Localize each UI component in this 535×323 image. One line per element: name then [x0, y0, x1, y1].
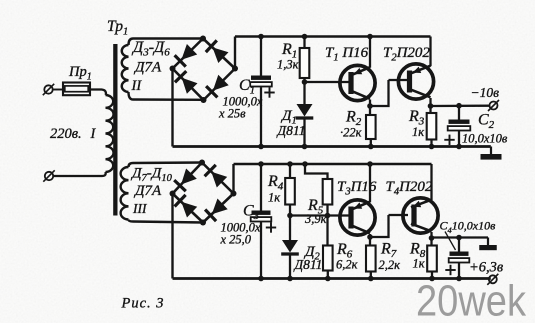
transistor T3 [340, 200, 375, 235]
node C4 bottom [456, 276, 462, 282]
primary winding I [106, 95, 114, 172]
svg-text:Д7А: Д7А [133, 60, 162, 76]
svg-text:Т2П202: Т2П202 [383, 45, 430, 64]
node R7 bottom [368, 276, 374, 282]
wire D1 bottom lead [303, 117, 305, 147]
resistor R5 [323, 179, 333, 205]
bridge rectifier D7-D10 [173, 163, 203, 194]
node C1 bottom [258, 144, 264, 150]
svg-text:Рис. 3: Рис. 3 [121, 296, 165, 312]
node C3 top [258, 161, 264, 167]
terminal primary top [44, 85, 52, 93]
node R4-D2-base junction [287, 213, 293, 219]
capacitor C1 [251, 76, 271, 80]
svg-text:·22к: ·22к [340, 126, 362, 140]
diode upper-right of bridge 1 [213, 47, 229, 63]
svg-text:Т1 П16: Т1 П16 [325, 45, 369, 64]
resistor R3 [427, 113, 437, 140]
svg-text:3,9к: 3,9к [304, 212, 327, 226]
ground top section [490, 147, 492, 155]
wire R8 bottom lead [431, 272, 433, 279]
svg-text:1к: 1к [412, 125, 424, 139]
wire bridge2 right corner up to rail C [232, 164, 234, 194]
wire terminal to fuse [53, 89, 63, 91]
resistor R6 [323, 246, 333, 271]
wire winding III bottom to bridge [129, 220, 204, 223]
transistor T3 leads [347, 214, 350, 216]
node R1-D1-base junction [302, 79, 308, 85]
resistor R7 [366, 246, 376, 272]
wire D2 bottom lead [289, 253, 291, 279]
wire bridge1 right corner up to rail B [234, 37, 236, 69]
secondary winding II [122, 45, 129, 92]
node C2 bottom [456, 144, 462, 150]
wire R8 top lead [430, 238, 432, 246]
wire C1 top lead [260, 37, 262, 76]
wire R6 top lead [326, 216, 328, 246]
lower top rail C [234, 163, 432, 166]
wire D1 top lead [303, 82, 305, 104]
transistor T2 [398, 64, 433, 99]
wire R2 top lead [369, 106, 371, 115]
resistor R1 [300, 48, 310, 78]
wire bridge1 left corner down to bottom rail [171, 69, 173, 147]
transformer core [113, 44, 117, 216]
transistor T1 [340, 65, 375, 100]
node R4 top [287, 161, 293, 167]
leader line C4 [445, 232, 456, 251]
transistor T4 leads [389, 214, 409, 216]
wire R7 top lead [369, 237, 371, 246]
transistor T1 leads [347, 81, 350, 83]
wire R5 jog [305, 164, 328, 179]
capacitor C2 [449, 120, 470, 124]
secondary winding III [121, 167, 129, 220]
node R5 rail tap [302, 161, 308, 167]
wire D2 top lead [289, 216, 291, 241]
wire R5 bottom lead [326, 205, 328, 216]
bridge rectifier D3-D6 [173, 39, 204, 69]
terminal primary bottom [45, 172, 53, 180]
svg-text:Т4П202: Т4П202 [386, 179, 433, 198]
svg-text:х 25,0: х 25,0 [220, 233, 252, 247]
svg-text:+6,3в: +6,3в [469, 260, 504, 276]
svg-text:Д811: Д811 [276, 123, 306, 138]
top rail B [235, 35, 431, 38]
wire C2 top lead [458, 106, 460, 120]
svg-text:1к: 1к [413, 257, 425, 271]
node R5-R6 junction [325, 213, 331, 219]
ground lower section [487, 238, 489, 246]
wire C2 bottom lead [458, 131, 460, 147]
node R3 bottom [429, 144, 435, 150]
wire C1 bottom lead [260, 87, 262, 146]
node R6 bottom [325, 276, 331, 282]
capacitor C4 [450, 252, 469, 256]
svg-text:II: II [131, 78, 143, 94]
node C2 top [456, 103, 462, 109]
svg-text:Д811: Д811 [293, 257, 323, 272]
node C1 top [258, 34, 264, 40]
diode upper-right of bridge 2 [211, 172, 227, 188]
zener diode D1 [297, 104, 313, 117]
resistor R2 [366, 115, 376, 139]
bottom rail of top section [173, 145, 491, 148]
node C3 bottom [258, 276, 264, 282]
svg-text:220в.: 220в. [50, 126, 82, 142]
node T1 collector junction [367, 103, 373, 109]
diode upper-left of bridge 2 [181, 169, 197, 185]
svg-text:Д7А: Д7А [133, 183, 162, 199]
wire R7 bottom lead [370, 272, 372, 279]
svg-text:1,3к: 1,3к [277, 58, 299, 72]
wire base of T1 [305, 81, 347, 83]
svg-text:6,2к: 6,2к [336, 258, 358, 272]
svg-text:2,2к: 2,2к [379, 258, 401, 272]
terminal +6.3v [489, 275, 497, 283]
wire winding II top to bridge [129, 39, 204, 46]
node R1 top [302, 34, 308, 40]
terminal -10v [490, 102, 498, 110]
wire R4 bottom lead [289, 205, 291, 216]
transistor T4 [403, 198, 438, 233]
wire C4 bottom lead [458, 263, 460, 279]
wire output -10v [431, 105, 490, 108]
node T2 emitter junction [428, 103, 434, 109]
diode lower-left of bridge 1 [182, 78, 198, 94]
wire R3 bottom lead [430, 140, 432, 147]
wire R1 bottom lead [303, 78, 305, 82]
fuse Pr1 [63, 83, 90, 96]
diode lower-left of bridge 2 [181, 202, 197, 218]
capacitor C3 [252, 211, 271, 215]
wire fuse to primary winding [90, 90, 106, 96]
svg-text:Т3П16: Т3П16 [337, 179, 377, 198]
wire primary bottom to terminal [54, 172, 106, 176]
plus of C3 [266, 227, 276, 229]
wire T1 collector to T2 base [370, 80, 389, 106]
wire C4 top lead [458, 238, 460, 252]
node T3 collector junction [367, 234, 373, 240]
wire winding III top to bridge [129, 163, 203, 168]
diode upper-left of bridge 1 [181, 44, 197, 60]
diode lower-right of bridge 2 [212, 199, 228, 215]
zener diode D2 [282, 240, 298, 253]
resistor R4 [285, 178, 295, 205]
node R8 bottom [429, 276, 435, 282]
wire C3 top lead [260, 164, 262, 211]
svg-text:20wek: 20wek [416, 277, 527, 323]
wire C3 bottom lead [260, 222, 262, 279]
svg-text:1к: 1к [268, 191, 280, 205]
svg-text:−10в: −10в [471, 85, 500, 100]
node D1 bottom [302, 144, 308, 150]
node D2 bottom [287, 276, 293, 282]
node T3 emitter rail [367, 161, 373, 167]
plus of C2 [444, 139, 454, 141]
diode lower-right of bridge 1 [213, 75, 229, 91]
transistor T2 leads [389, 79, 409, 81]
node T4 emitter junction [429, 235, 435, 241]
wire R2 bottom lead [370, 139, 372, 147]
node T1 emitter rail [367, 34, 373, 40]
wire T3 collector to T4 base [370, 215, 389, 237]
node R2 bottom [368, 144, 374, 150]
svg-text:III: III [132, 201, 148, 216]
plus of C4 [445, 269, 455, 271]
wire R6 bottom lead [327, 271, 329, 279]
svg-text:10,0х10в: 10,0х10в [462, 132, 508, 146]
plus of C1 [264, 92, 274, 94]
lower bottom rail [173, 277, 491, 280]
wire base of T3 [290, 214, 347, 216]
node C4 top [456, 235, 462, 241]
wire winding II bottom to bridge [129, 92, 204, 100]
wire bridge2 left corner down to bottom rail [171, 194, 173, 279]
resistor R8 [427, 246, 437, 272]
wire R4 top lead [289, 164, 291, 178]
wire R1 top lead [303, 37, 305, 49]
svg-text:х 25в: х 25в [218, 107, 246, 121]
wire emitter net lower [432, 236, 489, 238]
wire R3 top lead [429, 106, 431, 113]
